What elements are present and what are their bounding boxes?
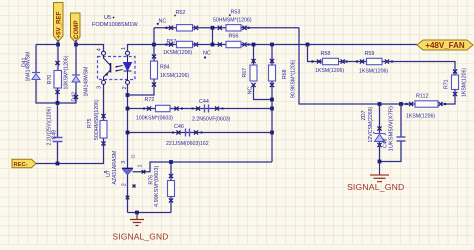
capacitor C44 <box>192 105 224 113</box>
node row1 junction <box>211 26 215 30</box>
resistor R52 <box>154 25 226 31</box>
node row4 left junction <box>126 131 130 135</box>
svg-text:C44: C44 <box>199 99 209 105</box>
power tag +48V_FAN <box>417 40 473 50</box>
svg-text:NC: NC <box>203 51 211 57</box>
wire R70 bottom <box>57 88 59 104</box>
resistor R59 <box>356 58 393 64</box>
svg-text:R52: R52 <box>176 10 186 16</box>
node COMP junction <box>74 43 78 47</box>
svg-text:1KSM(1206): 1KSM(1206) <box>163 50 192 56</box>
wire R76 top <box>170 162 172 181</box>
svg-text:1N4148WSM: 1N4148WSM <box>84 67 90 97</box>
U7 pin3 side circle marker <box>132 155 135 158</box>
power tag COMP <box>71 13 81 42</box>
node C48 junction <box>399 102 403 106</box>
node row3 left junction <box>126 107 130 111</box>
ground SIGNAL_GND right <box>370 162 389 182</box>
wire R68 bottom trunk <box>271 81 273 162</box>
node C49 top junction <box>56 101 60 105</box>
svg-text:U5: U5 <box>104 15 111 21</box>
wire R67 bottom stub <box>254 85 273 100</box>
svg-text:C49: C49 <box>52 130 58 140</box>
resistor R76 <box>168 174 175 203</box>
ground SIGNAL_GND left <box>130 213 144 226</box>
wire R59 to R71 <box>382 62 455 76</box>
node R58 branch junction <box>306 43 310 47</box>
power tag +5V_REF <box>54 3 64 42</box>
wire REC- net <box>36 146 104 164</box>
node R76 top junction <box>169 160 173 164</box>
resistor R72 <box>143 105 183 111</box>
node trunk junction b <box>270 107 274 111</box>
wire D41 top <box>35 45 37 73</box>
svg-text:10KSM*(1206): 10KSM*(1206) <box>64 55 70 89</box>
wire R76 bottom <box>170 197 172 213</box>
resistor R71 <box>452 69 459 96</box>
wire row1 drop to lower bus <box>299 28 415 104</box>
svg-text:NC: NC <box>159 18 167 24</box>
svg-text:50OHMSM(1206): 50OHMSM(1206) <box>94 99 100 140</box>
svg-text:R84: R84 <box>160 64 170 70</box>
wire U7 ref pin <box>133 162 273 174</box>
resistor R58 <box>311 58 347 64</box>
resistor R67 <box>250 45 257 88</box>
wire COMP vertical to D42 <box>75 40 77 75</box>
wire drop to R58 row <box>308 45 323 62</box>
wire row1-row2 tie <box>212 28 214 45</box>
svg-text:R53: R53 <box>231 10 241 16</box>
svg-text:3: 3 <box>121 161 127 164</box>
resistor R56 <box>218 41 250 47</box>
wire riser to row1 <box>153 28 155 45</box>
svg-text:R72: R72 <box>145 97 155 103</box>
svg-text:ZD7: ZD7 <box>361 110 367 120</box>
svg-text:R67: R67 <box>242 68 248 78</box>
wire row2 long to +48V_FAN <box>241 44 417 46</box>
zener diode ZD7 <box>373 126 386 147</box>
wire +5V_REF vertical to R70 <box>57 40 59 71</box>
svg-text:+5V_REF: +5V_REF <box>56 11 63 38</box>
wire +5V to D41 branch <box>36 44 58 46</box>
node row2 junction at tie <box>211 43 215 47</box>
port REC- <box>12 159 36 168</box>
svg-text:C46: C46 <box>174 124 184 130</box>
svg-text:100KSM*(0603): 100KSM*(0603) <box>136 116 173 122</box>
svg-text:AZ431ARASM: AZ431ARASM <box>112 151 118 185</box>
op-amp U5 optocoupler body <box>98 51 136 84</box>
svg-text:1KSM(1206): 1KSM(1206) <box>359 68 388 74</box>
wire node row y103 left <box>36 102 77 104</box>
svg-text:R71: R71 <box>444 79 450 89</box>
svg-text:FODM1008SM1W: FODM1008SM1W <box>92 22 138 28</box>
wire row4 C46 <box>128 132 273 134</box>
svg-text:+48V_FAN: +48V_FAN <box>425 41 465 50</box>
node ZD7 junction <box>378 102 382 106</box>
node +5V junction <box>56 43 60 47</box>
svg-text:3: 3 <box>96 86 102 89</box>
node trunk junction c <box>270 131 274 135</box>
node right ground junction <box>378 160 382 164</box>
svg-text:2: 2 <box>122 183 128 186</box>
svg-text:90.9KSM*(1206): 90.9KSM*(1206) <box>291 59 297 98</box>
svg-text:R56: R56 <box>229 34 239 40</box>
resistor R57 <box>154 41 226 47</box>
NC marker dot <box>157 23 159 25</box>
resistor R112 <box>405 101 446 107</box>
wire ZD7 column <box>379 104 381 162</box>
svg-text:REC-: REC- <box>14 162 28 168</box>
node ground junction <box>135 211 139 215</box>
svg-text:1: 1 <box>138 165 144 168</box>
capacitor C48 <box>380 104 406 162</box>
wire row3 C44 <box>128 108 273 110</box>
wire U5 pin3 down <box>101 85 105 121</box>
svg-text:SIGNAL_GND: SIGNAL_GND <box>113 232 169 242</box>
svg-text:NC: NC <box>248 87 254 95</box>
svg-text:1KSM(1206): 1KSM(1206) <box>462 68 468 97</box>
diode D41 <box>32 73 40 80</box>
svg-text:1N4148WSM: 1N4148WSM <box>26 52 32 82</box>
wire R75 bottom stub <box>103 138 105 146</box>
svg-text:1: 1 <box>121 47 127 50</box>
resistor R53 <box>218 25 299 31</box>
svg-text:1KSM(1206): 1KSM(1206) <box>315 68 344 74</box>
wire R71 bottom corner <box>440 90 455 105</box>
node REC-/C49 junction <box>56 162 60 166</box>
node R68 top junction <box>270 43 274 47</box>
node R84 top junction <box>152 43 156 47</box>
diode D42 <box>72 75 80 82</box>
svg-text:12VCSM(2269): 12VCSM(2269) <box>368 106 374 142</box>
svg-text:R70: R70 <box>47 75 53 85</box>
wire R84 bottom to pin2 node <box>128 79 155 95</box>
svg-text:R58: R58 <box>321 51 331 57</box>
wire ground row left <box>128 212 172 214</box>
wire R84 top <box>153 45 155 62</box>
capacitor C49 <box>53 103 63 164</box>
svg-text:4.99KSM*(0603): 4.99KSM*(0603) <box>154 166 160 207</box>
wire D42 bottom <box>74 83 78 104</box>
svg-text:R75: R75 <box>87 118 93 128</box>
wire D41 bottom <box>35 80 37 104</box>
wire R58-R59 <box>339 61 367 63</box>
svg-text:R68: R68 <box>282 69 288 79</box>
node trunk junction a <box>270 98 274 102</box>
svg-text:1KSM(1206): 1KSM(1206) <box>160 73 189 79</box>
svg-text:1UKSM50V(X7R): 1UKSM50V(X7R) <box>389 106 395 151</box>
svg-text:221JSM(0603)162: 221JSM(0603)162 <box>166 141 209 147</box>
svg-text:SIGNAL_GND: SIGNAL_GND <box>347 182 404 192</box>
svg-text:R59: R59 <box>365 51 375 57</box>
capacitor C46 <box>172 129 203 137</box>
resistor R75 <box>100 121 107 146</box>
resistor R70 <box>54 61 62 94</box>
node R67 top junction <box>252 43 256 47</box>
svg-text:R112: R112 <box>416 94 429 100</box>
resistor R68 <box>269 45 276 88</box>
svg-text:4: 4 <box>97 48 103 51</box>
wire U5 pin1 to node <box>128 45 155 52</box>
node pin2/R84 junction <box>126 93 130 97</box>
resistor R84 <box>151 54 158 86</box>
transistor U7 AZ431ARASM shunt regulator <box>122 168 133 174</box>
wire U5 pin2 down <box>127 85 129 169</box>
svg-text:50HMSM*(1206): 50HMSM*(1206) <box>213 17 252 23</box>
svg-text:COMP: COMP <box>73 20 80 39</box>
svg-text:1KSM(1206): 1KSM(1206) <box>406 114 435 120</box>
NC marker dot middle <box>204 56 206 58</box>
svg-text:2.2N50VF(0603): 2.2N50VF(0603) <box>192 117 231 123</box>
wire U7 anode down to ground row <box>126 175 136 213</box>
wire COMP to U5 pin4 <box>76 45 104 52</box>
